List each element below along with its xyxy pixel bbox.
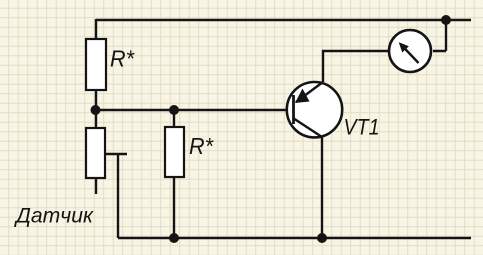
svg-text:VT1: VT1 <box>344 115 380 140</box>
svg-text:Датчик: Датчик <box>14 205 94 228</box>
svg-text:R*: R* <box>189 133 214 159</box>
svg-text:R*: R* <box>110 46 135 72</box>
